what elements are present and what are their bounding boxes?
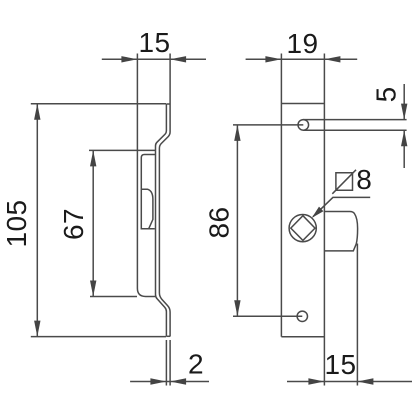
svg-text:8: 8: [356, 164, 372, 195]
svg-text:105: 105: [1, 200, 32, 248]
dimension 67 extension line bottom: [90, 296, 137, 298]
dimension 105 extension line top: [31, 103, 166, 105]
wire: plate inner edge (side view left contour): [156, 104, 167, 337]
boss circle around square hole: [289, 215, 316, 242]
wire: plate bottom end cap: [166, 335, 170, 337]
square symbol: [332, 170, 356, 194]
dimension 105 extension line bottom: [31, 336, 166, 338]
leader line for square 8: [313, 197, 370, 216]
dimension 5 tangent extension lines: [303, 119, 406, 121]
svg-text:19: 19: [287, 28, 319, 59]
hole top (d5): [298, 120, 309, 131]
dimension 67 dim line with inside arrows: [92, 150, 94, 296]
svg-text:2: 2: [188, 348, 204, 379]
wire: lever extension line (15-dim right): [356, 244, 358, 386]
square hole (8mm, rotated 45): [291, 216, 315, 241]
dimension 2 extension lines: [165, 340, 167, 386]
svg-text:67: 67: [58, 208, 89, 240]
wire: tongue top edge / 67 top extension line: [89, 149, 155, 151]
dimension 2 dim line with outside arrows: [130, 381, 209, 383]
wire: plate right edge + top and bottom extensions: [323, 54, 325, 386]
svg-text:15: 15: [325, 349, 357, 380]
lever handle (front view): [324, 212, 357, 251]
dimension 19 dim line with outside arrows: [246, 58, 358, 60]
dimension 105 dim line with inside arrows: [36, 104, 38, 337]
wire: boss housing outline (side view box): [141, 155, 155, 229]
wire: plate left edge + top extension: [280, 54, 282, 337]
dimension 15 (bottom right) dim line with outside arrows: [287, 381, 412, 383]
wire: boss bulge (lever hub seen edge-on): [141, 189, 153, 228]
wire: plate bottom edge: [281, 336, 324, 338]
wire: plate top end cap: [166, 103, 170, 105]
dimension 86 dim line with inside arrows: [236, 125, 238, 316]
svg-text:5: 5: [371, 86, 402, 102]
svg-text:15: 15: [139, 27, 171, 58]
dimension 15 (top left) dim line with outside arrows: [102, 58, 206, 60]
dimension 5 dim lines with outside arrows: [403, 84, 405, 120]
dimension 86 extension lines to hole centers: [233, 124, 303, 126]
wire: lever tongue front face line (also 15-dim extension): [137, 54, 155, 297]
wire: plate outer edge + top/bottom extension (side view right contour): [159, 54, 170, 337]
hole bottom (d5): [297, 311, 307, 321]
svg-text:86: 86: [204, 207, 235, 239]
wire: plate top edge: [281, 103, 324, 105]
